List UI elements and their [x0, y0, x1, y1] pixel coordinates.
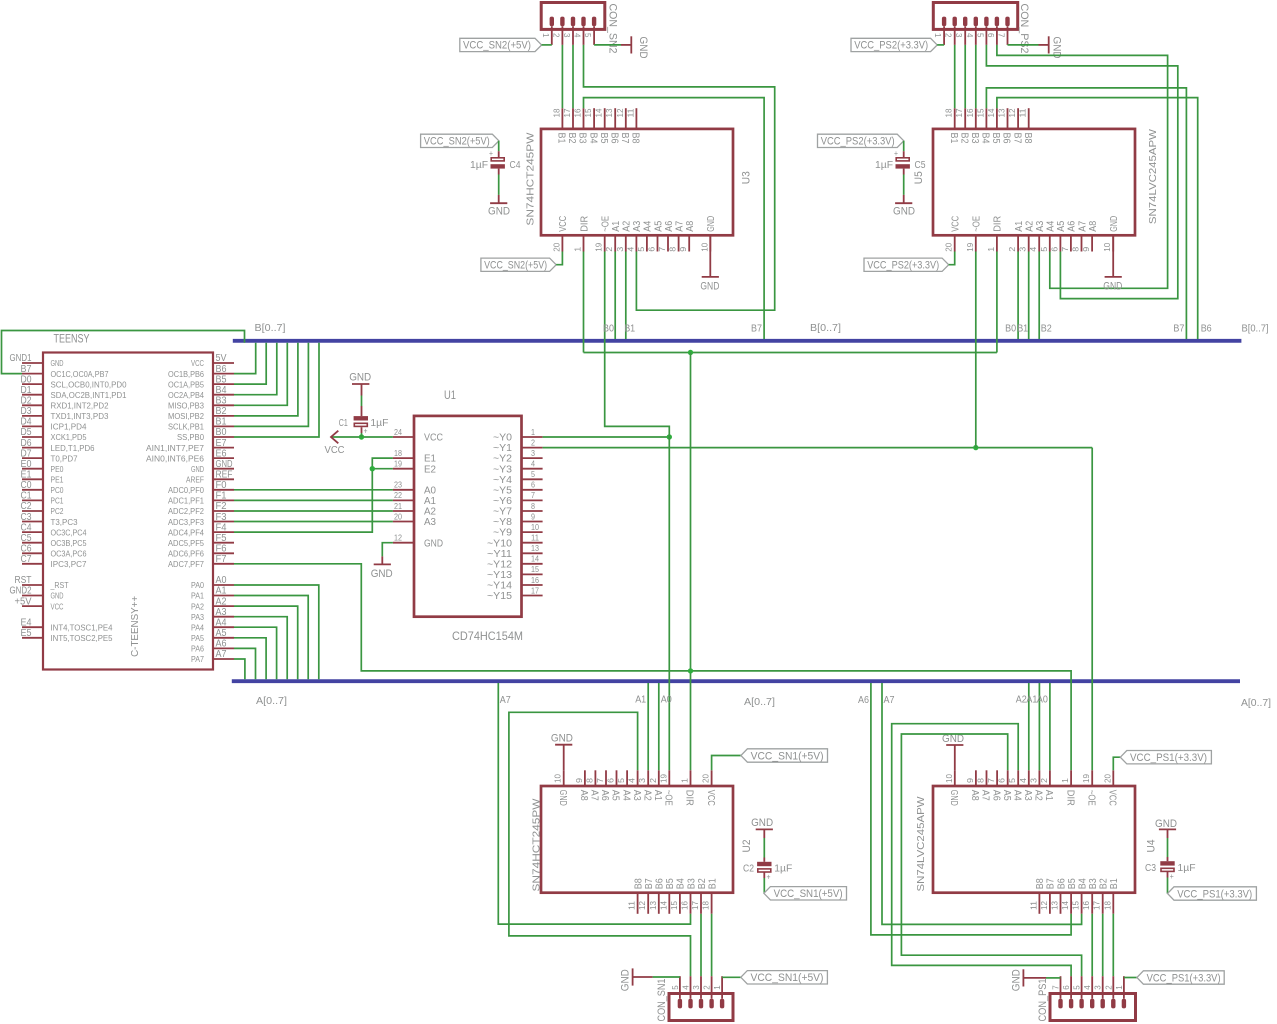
wire U5 A3 to bus (net B2): [1038, 252, 1040, 340]
U3 pin 19 ~OE: [595, 216, 612, 252]
TEENSY pin C6: [21, 544, 87, 559]
svg-text:3: 3: [638, 777, 647, 783]
TEENSY pin E4: [21, 618, 113, 633]
U3 pin 12 B7: [616, 108, 630, 144]
svg-text:CON_PS1: CON_PS1: [1037, 979, 1049, 1022]
svg-text:OC3C,PC4: OC3C,PC4: [51, 527, 87, 537]
svg-text:+: +: [364, 427, 368, 436]
U3 pin 14 B5: [595, 108, 609, 144]
svg-text:8: 8: [585, 777, 594, 783]
svg-text:22: 22: [394, 491, 402, 500]
ground GND (CON_SN1) bar: [632, 968, 634, 985]
ground GND (CON_SN2) label: [637, 37, 649, 59]
ground GND (above C1) label: [349, 372, 371, 384]
svg-text:F5: F5: [216, 533, 227, 544]
svg-text:5: 5: [583, 33, 592, 38]
svg-text:A3: A3: [424, 517, 436, 528]
svg-text:A0: A0: [424, 485, 436, 496]
TEENSY pin D0: [21, 374, 127, 389]
svg-text:B2: B2: [1099, 878, 1110, 889]
svg-text:GND2: GND2: [10, 586, 32, 597]
svg-text:U4: U4: [1146, 840, 1158, 853]
svg-text:B[0..7]: B[0..7]: [255, 323, 286, 334]
U4 pin 13 B6: [1051, 878, 1068, 914]
svg-text:GND: GND: [488, 206, 510, 218]
svg-text:TEENSY: TEENSY: [54, 332, 90, 346]
svg-text:PA6: PA6: [191, 644, 204, 654]
svg-text:A7: A7: [216, 649, 227, 660]
svg-text:~Y13: ~Y13: [487, 570, 512, 581]
svg-text:A3: A3: [216, 607, 227, 618]
TEENSY pin GND1: [10, 353, 64, 368]
supply flag VCC_SN2(+5V) at C4: [421, 134, 499, 147]
U4 pin 1 DIR: [1061, 770, 1075, 806]
wire U3 B3 wrap to bus (net B7): [584, 98, 765, 339]
ground GND (U4 pin10) pin: [954, 745, 956, 770]
svg-text:T0,PD7: T0,PD7: [51, 453, 78, 463]
svg-text:7: 7: [987, 777, 996, 783]
U1 pin 10 ~Y9: [493, 523, 543, 539]
svg-text:4: 4: [573, 33, 582, 38]
wire CON_PS1 pin7 to GND: [1046, 977, 1061, 979]
TEENSY pin B5 (right): [168, 374, 234, 389]
bus label A[0..7] left: [256, 696, 287, 707]
supply flag VCC_PS1(+3.3V) at C3: [1168, 887, 1257, 901]
svg-text:VCC_PS2(+3.3V): VCC_PS2(+3.3V): [854, 40, 928, 52]
svg-text:5: 5: [1008, 777, 1017, 783]
svg-text:VCC_SN2(+5V): VCC_SN2(+5V): [463, 40, 531, 52]
U4 pin 14 B5: [1061, 878, 1078, 914]
svg-text:C3: C3: [21, 512, 32, 523]
TEENSY pin A3 (right): [191, 607, 234, 622]
svg-text:A2: A2: [1025, 220, 1036, 231]
svg-text:12: 12: [616, 108, 625, 118]
U3 pin 6 A5: [648, 220, 665, 251]
U2 pin 7 A6: [596, 770, 610, 801]
svg-text:9: 9: [679, 246, 688, 252]
wire net ~Y1 (U1 pin2 east run): [543, 447, 1093, 449]
svg-text:A0: A0: [661, 695, 672, 706]
U4 pin 20 VCC: [1103, 770, 1117, 806]
svg-text:~Y11: ~Y11: [487, 549, 512, 560]
svg-text:A[0..7]: A[0..7]: [1241, 698, 1271, 709]
svg-text:PC1: PC1: [51, 496, 64, 506]
svg-text:F7: F7: [216, 554, 227, 565]
svg-text:U2: U2: [741, 840, 753, 853]
capacitor C2 name: [743, 864, 754, 875]
svg-text:XCK1,PD5: XCK1,PD5: [51, 432, 87, 442]
label net A7 (U2): [500, 695, 511, 706]
svg-text:C-TEENSY++: C-TEENSY++: [130, 596, 141, 657]
U3 pin 10 GND: [700, 216, 717, 252]
svg-text:INT5,TOSC2,PE5: INT5,TOSC2,PE5: [51, 633, 113, 643]
ground GND (U1 pin12) bar: [374, 563, 391, 565]
capacitor C5 name: [915, 160, 926, 171]
ground GND (CON_PS2) label: [1051, 37, 1063, 59]
svg-text:GND: GND: [1155, 818, 1177, 830]
capacitor C3 value 1uF: [1178, 863, 1196, 874]
ground GND (U1 pin12) pin: [381, 556, 383, 564]
capacitor C1 plates: [354, 416, 368, 426]
supply flag VCC_SN2(+5V) at CON_SN2: [460, 38, 542, 51]
svg-text:ADC3,PF3: ADC3,PF3: [168, 517, 204, 527]
connector CON_SN2: [541, 3, 605, 45]
ic U2 name: [741, 840, 753, 853]
TEENSY pin +5V: [15, 596, 64, 611]
svg-text:11: 11: [531, 534, 540, 543]
svg-text:16: 16: [681, 900, 690, 910]
svg-text:5: 5: [1040, 246, 1049, 252]
svg-text:A3: A3: [1035, 220, 1046, 231]
svg-text:1: 1: [531, 428, 535, 437]
svg-text:D1: D1: [21, 385, 32, 396]
svg-text:VCC: VCC: [424, 433, 443, 444]
wire net A7 tap to U2 B3: [498, 683, 690, 924]
svg-text:+: +: [767, 873, 771, 882]
svg-text:B5: B5: [216, 374, 227, 385]
svg-text:A6: A6: [1067, 220, 1078, 231]
svg-text:VCC_SN2(+5V): VCC_SN2(+5V): [484, 260, 547, 272]
wire U2 B1 to CON_SN1 pin2: [711, 914, 713, 976]
junction ~Y0/~OE: [667, 434, 672, 439]
svg-text:PE0: PE0: [51, 464, 64, 474]
svg-text:A1: A1: [424, 496, 436, 507]
U3 pin 7 A6: [658, 220, 675, 251]
svg-text:PA7: PA7: [191, 654, 204, 664]
U2 pin 9 A8: [575, 770, 589, 801]
capacitor C2 plus: [767, 873, 771, 882]
svg-text:A4: A4: [216, 618, 227, 629]
U2 pin 13 B6: [649, 878, 666, 914]
svg-text:2: 2: [703, 985, 712, 990]
svg-text:D3: D3: [21, 406, 32, 417]
capacitor C3 name: [1145, 863, 1156, 874]
U5 pin 14 B5: [987, 108, 1001, 144]
wire U4 B2 to CON_PS1 pin3: [1102, 914, 1104, 976]
wire CON_SN2 pin5 to GND: [594, 44, 621, 46]
svg-text:B1: B1: [624, 324, 635, 335]
svg-text:CD74HC154M: CD74HC154M: [452, 629, 523, 643]
wire net A6 tap to U4 B5: [871, 683, 1071, 935]
svg-text:B6: B6: [1201, 324, 1212, 335]
svg-text:B7: B7: [21, 364, 32, 375]
TEENSY pin D5: [21, 427, 87, 442]
svg-text:10: 10: [1103, 242, 1112, 252]
svg-text:7: 7: [596, 777, 605, 783]
svg-text:~Y3: ~Y3: [493, 464, 512, 475]
ground GND (U2 pin10) label: [551, 733, 573, 745]
wire CON_SN1 pin5 to GND: [653, 976, 680, 978]
TEENSY pin C0: [21, 480, 64, 495]
U1 pin 3 ~Y2: [493, 449, 543, 465]
svg-text:B7: B7: [644, 878, 655, 889]
capacitor C5 plates: [896, 158, 910, 169]
TEENSY pin A4 (right): [191, 618, 234, 633]
U1 pin 1 ~Y0: [493, 428, 543, 444]
TEENSY pin F3 (right): [168, 512, 234, 527]
svg-text:A2: A2: [622, 220, 633, 231]
svg-text:DIR: DIR: [579, 216, 590, 232]
supply flag VCC_PS2(+3.3V) at C5: [818, 134, 904, 147]
capacitor C2 wire to flag: [763, 872, 765, 893]
connector CON_PS1: [1050, 976, 1136, 1020]
svg-text:B6: B6: [1001, 133, 1012, 144]
svg-text:3: 3: [531, 449, 535, 458]
svg-text:SN74LVC245APW: SN74LVC245APW: [916, 796, 927, 892]
svg-text:A7: A7: [500, 695, 511, 706]
svg-text:U3: U3: [741, 171, 753, 184]
U1 pin 6 ~Y5: [493, 481, 543, 497]
svg-text:A8: A8: [578, 790, 589, 801]
svg-text:14: 14: [659, 900, 668, 910]
svg-text:SN74HCT245PW: SN74HCT245PW: [526, 132, 537, 226]
junction DIR/F7 net: [688, 668, 693, 673]
svg-text:24: 24: [394, 428, 402, 437]
svg-text:B5: B5: [665, 878, 676, 889]
wire net B2 (TEENSY to bus B): [234, 343, 298, 416]
svg-text:B2: B2: [1041, 324, 1052, 335]
svg-text:B4: B4: [216, 385, 227, 396]
supply flag VCC_PS2(+3.3V) at CON_PS2: [851, 38, 937, 51]
bus label B[0..7] left: [255, 323, 286, 334]
svg-text:GND: GND: [893, 206, 915, 218]
svg-text:~OE: ~OE: [972, 216, 983, 232]
U3 pin 1 DIR: [574, 216, 591, 252]
module TEENSY value C-TEENSY++: [130, 596, 141, 657]
svg-text:B0: B0: [216, 427, 227, 438]
U5 pin 16 B3: [966, 108, 980, 144]
wire CON_PS2 pin7 to GND: [1008, 44, 1039, 46]
svg-text:VCC_PS1(+3.3V): VCC_PS1(+3.3V): [1147, 972, 1221, 984]
svg-text:~OE: ~OE: [663, 790, 674, 806]
U5 pin 10 GND: [1103, 216, 1120, 252]
TEENSY pin C4: [21, 522, 87, 537]
U5 pin 5 A4: [1040, 220, 1057, 251]
svg-text:B3: B3: [1088, 878, 1099, 889]
svg-text:20: 20: [552, 242, 561, 252]
capacitor C3 plus: [1170, 872, 1174, 881]
svg-text:RXD1,INT2,PD2: RXD1,INT2,PD2: [51, 401, 109, 411]
svg-text:A7: A7: [674, 220, 685, 231]
svg-text:A6: A6: [216, 639, 227, 650]
capacitor C4 plus: [489, 149, 493, 158]
svg-text:14: 14: [987, 108, 996, 118]
svg-text:B8: B8: [1035, 878, 1046, 889]
ground GND (U2 pin10) pin: [563, 745, 565, 771]
svg-text:A2: A2: [1033, 790, 1044, 801]
svg-text:14: 14: [595, 108, 604, 118]
capacitor C5 value 1uF: [875, 160, 893, 171]
svg-text:C7: C7: [21, 554, 32, 565]
wire U5 VCC to flag: [949, 252, 955, 265]
U3 pin 17 B2: [563, 108, 577, 144]
svg-text:3: 3: [1029, 777, 1038, 783]
svg-text:A2: A2: [641, 790, 652, 801]
svg-text:9: 9: [575, 777, 584, 783]
svg-text:B1: B1: [1017, 324, 1028, 335]
TEENSY pin D4: [21, 417, 87, 432]
wire net B0 (TEENSY to bus B): [234, 343, 319, 437]
TEENSY pin C5: [21, 533, 87, 548]
wire U4 A2 tap from bus (net A1): [1038, 683, 1040, 770]
svg-text:20: 20: [702, 773, 711, 783]
label net B6 (U5): [1201, 324, 1212, 335]
U1 pin 21 A2: [393, 502, 437, 518]
TEENSY pin C2: [21, 501, 64, 516]
capacitor C3 wire from GND: [1167, 829, 1169, 861]
TEENSY pin F7 (right): [168, 554, 234, 569]
ground GND (U3 pin10) pin: [709, 235, 711, 277]
svg-text:5: 5: [617, 777, 626, 783]
svg-text:1µF: 1µF: [470, 160, 488, 171]
svg-text:A5: A5: [1001, 790, 1012, 801]
bus label A[0..7] right: [1241, 698, 1271, 709]
svg-text:F1: F1: [216, 491, 227, 502]
svg-text:IPC3,PC7: IPC3,PC7: [51, 559, 87, 569]
svg-text:~Y7: ~Y7: [493, 507, 512, 518]
TEENSY pin C1: [21, 491, 64, 506]
wire U5 A2 to bus (net B1): [1028, 252, 1030, 340]
svg-text:2: 2: [1008, 246, 1017, 252]
ic U4 box: [933, 786, 1135, 893]
TEENSY pin F4 (right): [168, 522, 234, 537]
ground GND (CON_SN2) pin: [621, 44, 631, 46]
label net A2 (U4): [1016, 695, 1027, 706]
svg-text:7: 7: [531, 491, 535, 500]
svg-text:2: 2: [1040, 777, 1049, 783]
U4 pin 7 A6: [987, 770, 1001, 801]
capacitor C5 wire from flag: [903, 141, 905, 158]
U4 pin 9 A8: [966, 770, 980, 801]
svg-text:5: 5: [1073, 985, 1082, 990]
U4 pin 8 A7: [977, 770, 991, 801]
svg-text:A2: A2: [424, 507, 436, 518]
wire U3 DIR down across bus: [583, 252, 585, 353]
U3 pin 4 A3: [626, 220, 643, 251]
svg-text:8: 8: [669, 246, 678, 252]
supply VCC label: [325, 445, 345, 456]
svg-text:A3: A3: [631, 790, 642, 801]
svg-text:RST: RST: [15, 575, 32, 586]
svg-text:13: 13: [605, 108, 614, 118]
svg-text:13: 13: [649, 900, 658, 910]
svg-text:B3: B3: [216, 396, 227, 407]
wire CON_PS2 pin4 to U5 B3: [975, 45, 977, 108]
capacitor C4 wire to GND: [498, 169, 500, 204]
svg-text:C1: C1: [21, 491, 32, 502]
svg-text:B7: B7: [1046, 878, 1057, 889]
supply flag VCC_SN2(+5V) at U3 VCC: [481, 258, 556, 271]
ic U4 value SN74LVC245APW: [916, 796, 927, 892]
svg-text:GND: GND: [551, 733, 573, 745]
U4 pin 10 GND: [945, 770, 959, 806]
svg-text:ICP1,PD4: ICP1,PD4: [51, 422, 87, 432]
ground GND (C5) label: [893, 206, 915, 218]
svg-text:VCC: VCC: [558, 216, 569, 232]
U2 pin 3 A2: [638, 770, 652, 801]
svg-text:OC1A,PB5: OC1A,PB5: [168, 379, 204, 389]
svg-text:VCC: VCC: [325, 445, 345, 456]
U1 pin 9 ~Y8: [493, 512, 543, 528]
svg-text:B6: B6: [655, 878, 666, 889]
svg-text:A1: A1: [635, 695, 646, 706]
svg-text:1µF: 1µF: [875, 160, 893, 171]
svg-text:VCC_SN1(+5V): VCC_SN1(+5V): [751, 750, 824, 762]
label net A0 (U2): [661, 695, 672, 706]
U5 pin 2 A1: [1008, 220, 1025, 251]
wire net B7 (TEENSY B7 to bus B): [2, 331, 245, 374]
svg-text:1: 1: [987, 246, 996, 252]
svg-text:2: 2: [1104, 985, 1113, 990]
svg-text:F4: F4: [216, 522, 227, 533]
svg-text:DIR: DIR: [684, 790, 695, 806]
svg-text:A[0..7]: A[0..7]: [744, 697, 775, 708]
svg-text:C0: C0: [21, 480, 32, 491]
svg-text:VCC_PS2(+3.3V): VCC_PS2(+3.3V): [821, 136, 895, 148]
svg-text:7: 7: [1061, 246, 1070, 252]
svg-text:E4: E4: [21, 618, 32, 629]
label net B7 (U5): [1173, 324, 1184, 335]
svg-text:~OE: ~OE: [1085, 790, 1096, 806]
TEENSY pin B3 (right): [168, 396, 234, 411]
svg-text:~Y10: ~Y10: [487, 538, 512, 549]
wire U2 A1 tap from bus (net A0): [658, 683, 660, 770]
svg-text:16: 16: [1082, 900, 1091, 910]
svg-text:OC3A,PC6: OC3A,PC6: [51, 549, 87, 559]
svg-text:B1: B1: [556, 133, 567, 144]
U5 pin 4 A3: [1029, 220, 1046, 251]
svg-text:A7: A7: [589, 790, 600, 801]
TEENSY pin F6 (right): [168, 544, 234, 559]
wire net B6 (TEENSY to bus B): [234, 343, 256, 374]
U1 pin 7 ~Y6: [493, 491, 543, 507]
TEENSY pin B0 (right): [177, 427, 234, 442]
svg-text:B1: B1: [707, 878, 718, 889]
TEENSY pin D1: [21, 385, 127, 400]
svg-text:6: 6: [607, 777, 616, 783]
U4 pin 17 B2: [1093, 878, 1110, 914]
connector CON_PS2 label: [1018, 4, 1030, 54]
ground GND (U1 pin12) label: [371, 568, 393, 580]
svg-text:B4: B4: [980, 133, 991, 144]
svg-text:D0: D0: [21, 374, 32, 385]
svg-text:GND: GND: [751, 817, 773, 829]
svg-text:A6: A6: [990, 790, 1001, 801]
svg-text:3: 3: [562, 33, 571, 38]
svg-text:14: 14: [1061, 900, 1070, 910]
wire U3 VCC to flag: [556, 252, 562, 265]
ground GND (C3) label: [1155, 818, 1177, 830]
TEENSY pin 5V (right): [191, 353, 234, 368]
U1 pin 16 ~Y14: [487, 576, 543, 592]
ic U2 value SN74HCT245PW: [532, 798, 543, 892]
U1 pin 5 ~Y4: [493, 470, 543, 486]
TEENSY pin D3: [21, 406, 109, 421]
U2 pin 4 A3: [628, 770, 642, 801]
svg-text:VCC: VCC: [51, 601, 64, 611]
svg-text:10: 10: [945, 773, 954, 783]
svg-text:A6: A6: [858, 695, 869, 706]
U4 pin 11 B8: [1029, 878, 1046, 914]
svg-text:9: 9: [1082, 246, 1091, 252]
svg-text:18: 18: [945, 108, 954, 118]
ground GND (C3) bar: [1159, 828, 1176, 830]
svg-text:B6: B6: [608, 133, 619, 144]
svg-text:E2: E2: [424, 464, 436, 475]
TEENSY pin E6 (right): [146, 448, 234, 463]
U1 pin 20 A3: [393, 512, 437, 528]
U5 pin 3 A2: [1019, 220, 1036, 251]
